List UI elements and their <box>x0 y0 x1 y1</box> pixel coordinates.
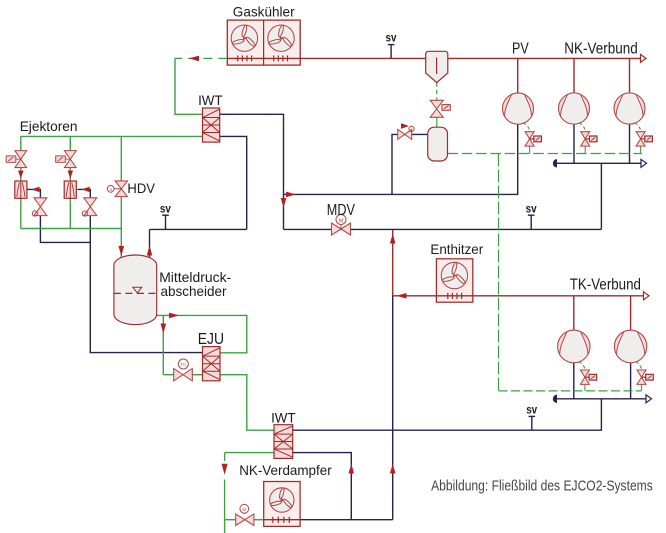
svg-text:IWT: IWT <box>271 410 296 426</box>
svg-text:PV: PV <box>512 41 529 58</box>
svg-text:abscheider: abscheider <box>161 283 227 299</box>
svg-text:Enthitzer: Enthitzer <box>430 241 483 257</box>
flow arrow down on liquid branch <box>161 324 167 334</box>
wire TK suction manifold <box>557 398 647 400</box>
gas cooler coil ticks left <box>237 55 239 61</box>
open arrow end of HP header <box>641 54 647 62</box>
wire TK discharge header (red) <box>393 295 644 297</box>
wire expansion valve inlet <box>163 374 174 376</box>
wire ejector HP header <box>21 135 203 137</box>
NK evaporator fan <box>270 488 294 512</box>
wire expansion valve to EJU <box>192 374 202 376</box>
oil return solenoid valve <box>398 129 412 139</box>
wire flash gas riser from separator vessel <box>149 229 151 258</box>
svg-text:IWT: IWT <box>198 92 223 108</box>
wire riser MDV line to NK suction manifold <box>600 163 602 229</box>
svg-text:Ejektoren: Ejektoren <box>20 118 78 134</box>
oil separator <box>426 51 448 82</box>
wire liquid branch down to expansion valve <box>162 315 164 374</box>
wire pipe through gas cooler <box>227 57 300 59</box>
heat exchanger IWT lower <box>274 425 293 459</box>
svg-text:HDV: HDV <box>127 180 155 196</box>
wire gas cooler outlet (green dashed) to IWT <box>175 57 227 59</box>
ejector 1 motor valve <box>15 151 27 168</box>
ejector 1 suction valve <box>34 198 47 216</box>
wire lower IWT liquid out <box>225 452 274 454</box>
expansion valve TC at EJU <box>174 369 193 381</box>
gas cooler box (Gaskühler) <box>227 20 300 65</box>
svg-text:M: M <box>339 218 344 224</box>
svg-text:NK-Verbund: NK-Verbund <box>564 41 637 58</box>
svg-text:MDV: MDV <box>327 202 356 219</box>
ejector 1 body <box>15 181 27 198</box>
oil valve TK compressor 2 <box>636 361 642 370</box>
wire NK evaporator outlet <box>300 519 393 521</box>
open arrow right end NK suction manifold <box>641 159 647 167</box>
wire oil line vertical (dashed) <box>498 154 500 391</box>
desuperheater box (Enthitzer) <box>436 259 472 302</box>
oil receiver vessel <box>428 127 448 161</box>
oil valve NK compressor 1 <box>579 123 585 132</box>
flow arrow left into ejector 1 <box>32 187 40 193</box>
NK evaporator coil ticks <box>272 517 274 523</box>
wire ejector 1 liquid outlet <box>20 198 22 228</box>
wire HDV outlet down to separator vessel <box>120 197 122 259</box>
wire MT suction riser upper (red) <box>392 229 394 295</box>
wire NK compressor 1 discharge riser <box>573 58 575 93</box>
flow arrow down at junction <box>281 198 287 208</box>
wire TK compressor 2 discharge riser <box>630 296 632 331</box>
svg-text:sv: sv <box>526 405 538 417</box>
NK evaporator box <box>264 482 300 527</box>
wire TK compressor 1 suction <box>573 363 575 399</box>
wire sv header left <box>150 228 247 230</box>
flow arrow down into separator vessel <box>119 246 125 256</box>
flow arrow left on gas cooler outlet <box>189 56 199 62</box>
wire MDV flash-gas line <box>284 228 602 230</box>
safety valve sv on left header <box>165 215 167 229</box>
svg-text:sv: sv <box>386 33 398 45</box>
svg-text:sv: sv <box>526 203 538 215</box>
svg-text:TK-Verbund: TK-Verbund <box>570 277 641 294</box>
heat exchanger EJU <box>203 347 221 381</box>
compressor TK 1 <box>558 330 590 362</box>
wire NK compressor 2 suction <box>629 124 631 163</box>
wire drop to ejector 2 motor valve <box>69 136 71 150</box>
ejector 2 motor valve <box>64 151 76 168</box>
oil valve NK compressor 2 <box>635 123 641 132</box>
compressor TK 2 <box>614 330 646 362</box>
oil drain valve with actuator <box>430 100 443 117</box>
wire ejector suction manifold down to EJU <box>90 216 202 353</box>
gas cooler fan 2 <box>268 25 294 51</box>
wire evaporator feed continues down <box>224 520 226 533</box>
wire NK suction manifold <box>557 162 642 164</box>
wire IWT cold out to sv header <box>220 136 247 229</box>
compressor NK 2 <box>614 93 645 124</box>
wire separator oil drain upper <box>436 82 438 100</box>
svg-text:sv: sv <box>160 203 172 215</box>
wire liquid drop to NK evaporator valve <box>224 453 226 461</box>
wire separator liquid outlet <box>157 315 247 352</box>
wire ejector 1 motor valve to body <box>20 168 22 181</box>
gas cooler fan 1 <box>231 25 257 51</box>
open arrow end of TK header <box>644 292 650 300</box>
Enthitzer coil ticks <box>447 293 449 299</box>
svg-text:Abbildung: Fließbild des EJCO2: Abbildung: Fließbild des EJCO2-Systems <box>431 478 653 494</box>
valve HDV with actuator <box>115 181 127 197</box>
flow arrow into ejector 1 body <box>18 171 24 179</box>
heat exchanger IWT upper <box>203 108 220 142</box>
NK evaporator expansion valve <box>236 514 254 526</box>
flow arrow left into ejector 2 <box>82 187 90 193</box>
wire NK evaporator valve to coil <box>254 519 264 521</box>
svg-text:NK-Verdampfer: NK-Verdampfer <box>239 462 332 478</box>
wire separator oil drain lower <box>436 117 438 127</box>
flow arrow up on MT suction riser <box>390 234 396 244</box>
vessel Mitteldruckabscheider <box>114 255 157 325</box>
vessel liquid level line <box>114 292 157 294</box>
wire TK compressor 2 suction <box>630 363 632 399</box>
cap left end TK suction manifold <box>553 395 557 403</box>
oil valve TK compressor 1 <box>579 361 585 370</box>
wire ejector 2 motor valve to body <box>69 168 71 181</box>
ejector 2 suction valve <box>84 198 97 216</box>
flow arrow left on TK header <box>397 293 407 299</box>
svg-text:Gaskühler: Gaskühler <box>233 3 295 19</box>
wire oil header to TK compressors (dashed) <box>499 390 642 392</box>
wire ejector 1 suction stub <box>27 189 40 197</box>
cap left end NK suction manifold <box>553 159 557 167</box>
wire ejector 1 suction valve outlet <box>40 216 90 243</box>
safety valve sv on TK suction <box>531 416 533 430</box>
wire ejector 2 liquid outlet <box>69 198 71 228</box>
valve MDV with actuator <box>332 223 351 235</box>
wire MT suction riser lower (navy) <box>392 296 394 520</box>
wire TK compressor 1 discharge riser <box>573 296 575 331</box>
wire branch to lower IWT <box>293 453 352 520</box>
ejector 2 body <box>64 181 76 198</box>
flow arrow right to PV <box>286 192 296 198</box>
compressor PV <box>503 93 534 124</box>
svg-text:TC: TC <box>180 362 187 367</box>
wire drop to HDV valve <box>120 136 122 181</box>
svg-text:M: M <box>242 507 246 512</box>
wire oil header to NK/PV compressors (dashed) <box>448 153 643 155</box>
wire NK evaporator valve inlet <box>225 519 236 521</box>
wire ejector 2 suction stub <box>77 189 90 197</box>
safety valve sv on HP header <box>390 45 392 59</box>
flow arrow right on liquid outlet <box>169 313 179 319</box>
wire NK compressor 2 discharge riser <box>629 58 631 93</box>
flow arrow up on riser at evaporator <box>390 464 396 474</box>
safety valve sv on MDV line <box>530 215 532 229</box>
Enthitzer fan <box>441 262 467 288</box>
wire ejector liquid manifold <box>21 228 122 230</box>
wire oil drain line from separator valve <box>392 134 428 194</box>
gas cooler coil ticks right <box>273 55 275 61</box>
flow arrow up to lower IWT <box>349 464 355 474</box>
wire TK suction line <box>293 399 602 430</box>
svg-text:EJU: EJU <box>198 331 224 348</box>
flow arrow up on flash gas riser <box>147 246 153 256</box>
flow arrow down on evaporator feed <box>222 464 228 475</box>
oil valve PV compressor <box>523 123 530 132</box>
open arrow right end TK suction manifold <box>646 395 652 403</box>
wire PV discharge riser <box>517 58 519 93</box>
wire line to PV compressor suction <box>284 124 518 194</box>
wire drop to ejector 1 motor valve <box>20 136 22 150</box>
wire IWT hot out to junction <box>220 114 284 229</box>
wire NK compressor 1 suction <box>573 124 575 163</box>
flow arrow into ejector 2 body <box>68 171 74 179</box>
wire EJU liquid out down to lower IWT <box>220 375 274 431</box>
compressor NK 1 <box>559 93 590 124</box>
wire HP discharge header (red) <box>300 57 641 59</box>
